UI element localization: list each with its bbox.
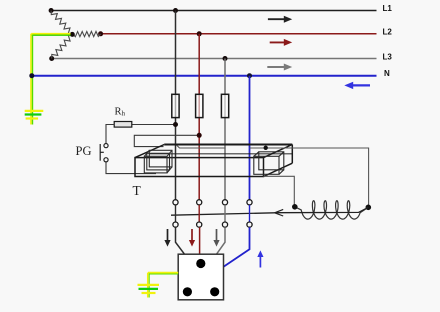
arrow load current L2 bbox=[189, 229, 195, 247]
wire PE socket to earth bbox=[148, 273, 178, 298]
node L3 tap bbox=[49, 56, 54, 61]
transformer secondary wire lower bbox=[264, 176, 295, 204]
trip coil bbox=[295, 201, 369, 219]
arrow N direction bbox=[344, 82, 370, 89]
ground supply earth bbox=[25, 111, 44, 119]
resistor network star to L2 bbox=[73, 31, 101, 36]
wire L3 to socket bbox=[217, 227, 226, 254]
node L3 branch bbox=[223, 56, 228, 61]
svg-text:T: T bbox=[133, 183, 142, 198]
switch bar with trip linkage bbox=[171, 207, 368, 215]
arrow L1 direction bbox=[268, 16, 292, 23]
node coil right bbox=[366, 205, 372, 211]
socket pin L bbox=[196, 259, 205, 268]
node N branch bbox=[247, 73, 252, 78]
arrow L3 direction bbox=[267, 64, 292, 71]
wire L2 bus bbox=[101, 33, 377, 35]
wire L2 drop bbox=[198, 34, 200, 202]
arrow load current L3 bbox=[213, 229, 219, 247]
winding secondary right bbox=[254, 152, 284, 175]
node L1 branch bbox=[173, 8, 178, 13]
wire PE star point to earth (green/yellow) bbox=[31, 34, 71, 125]
arrow trip direction bbox=[275, 209, 284, 216]
svg-text:L3: L3 bbox=[383, 53, 393, 62]
wire N bus bbox=[32, 75, 377, 77]
socket pin right bbox=[210, 287, 219, 296]
node N tap bbox=[29, 73, 34, 78]
ground load earth bbox=[138, 285, 160, 293]
arrow load current L1 bbox=[164, 229, 170, 247]
socket outlet bbox=[178, 254, 223, 300]
wire N to socket bbox=[224, 227, 250, 267]
wire L1 to socket bbox=[176, 227, 185, 254]
arrow return current N bbox=[257, 250, 263, 267]
wire L3 drop bbox=[224, 59, 226, 203]
arrow L2 direction bbox=[270, 39, 293, 46]
wire L3 bus bbox=[52, 58, 377, 60]
svg-text:PG: PG bbox=[76, 144, 92, 158]
resistor Rh bbox=[114, 122, 132, 128]
switch contacts lower row bbox=[173, 222, 252, 227]
svg-text:N: N bbox=[384, 69, 390, 78]
wire L1 drop bbox=[175, 11, 177, 203]
test button PG contacts bbox=[100, 144, 108, 162]
wire N drop bbox=[249, 76, 251, 202]
node star point bbox=[70, 32, 75, 37]
resistor network star to L3 bbox=[52, 35, 73, 59]
fuse F2 bbox=[196, 94, 203, 117]
wire Rh to test button bbox=[106, 125, 114, 144]
node Rh junction bbox=[173, 122, 178, 127]
winding primary left bbox=[144, 150, 172, 173]
wire L2 to socket bbox=[199, 227, 201, 254]
switch contacts upper row bbox=[173, 200, 252, 205]
wire L2 tap into transformer winding bbox=[134, 135, 199, 146]
svg-text:Rh: Rh bbox=[115, 106, 126, 117]
resistor network L1 to star point bbox=[51, 11, 72, 35]
socket pin left bbox=[183, 287, 192, 296]
svg-text:L2: L2 bbox=[383, 28, 393, 37]
wire L1 bus bbox=[51, 10, 376, 12]
transformer T core box bbox=[135, 145, 292, 177]
fuse F3 bbox=[221, 94, 228, 117]
node L1 tap bbox=[49, 8, 54, 13]
fuse F1 bbox=[172, 94, 179, 117]
node L2 tap junction bbox=[197, 133, 202, 138]
transformer secondary wire upper bbox=[177, 145, 369, 205]
node secondary upper tap bbox=[264, 146, 268, 150]
wire pole stubs to lower contacts bbox=[176, 205, 250, 222]
node L2 branch bbox=[197, 31, 202, 36]
node L2 tap bbox=[98, 31, 103, 36]
wire Rh to L1 drop bbox=[132, 124, 176, 126]
wire test button to primary winding bbox=[106, 162, 156, 174]
svg-text:L1: L1 bbox=[383, 4, 393, 13]
node coil left bbox=[292, 204, 298, 210]
